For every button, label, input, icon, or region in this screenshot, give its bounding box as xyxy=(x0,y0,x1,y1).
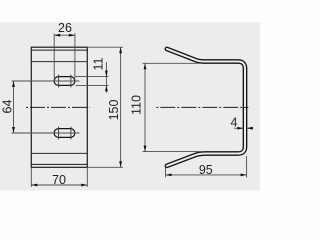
dim 11: extension lines xyxy=(76,76,109,78)
dim 70: dimension line xyxy=(31,184,87,186)
dim 95: extension lines xyxy=(165,168,167,178)
svg-text:11: 11 xyxy=(92,57,106,70)
drawing canvas background xyxy=(0,0,260,214)
right view centerline (dash-dot) xyxy=(156,106,248,108)
dim 70: extension lines xyxy=(30,167,32,187)
svg-text:4: 4 xyxy=(231,116,238,130)
dim 150: dimension line xyxy=(120,47,122,167)
top inner edge line xyxy=(31,49,87,51)
dim 110: extension lines xyxy=(143,62,201,64)
dim 11 arrows (outside) xyxy=(105,71,108,77)
dim 26: extension lines xyxy=(53,33,55,78)
svg-text:95: 95 xyxy=(199,163,213,177)
dim 95: dimension line xyxy=(166,174,247,176)
dim 11: dimension line xyxy=(105,62,107,93)
dim 26 arrows xyxy=(54,34,60,37)
slot upper center ticks xyxy=(58,75,60,88)
svg-text:64: 64 xyxy=(0,100,14,114)
svg-text:70: 70 xyxy=(52,173,66,187)
bottom inner edge line xyxy=(31,163,87,165)
dim 64: dimension line xyxy=(13,81,15,133)
dim 64 arrows xyxy=(12,81,15,87)
slot upper centerline (extends left = 64 ext) xyxy=(12,80,80,82)
dim 4 arrows (outside, pointing inward) xyxy=(237,127,243,130)
dim 110: dimension line xyxy=(144,63,146,151)
dim 150 arrows xyxy=(119,47,122,53)
dim 4: leader lines xyxy=(234,127,243,129)
dim 110 arrows xyxy=(144,63,147,69)
dim 70 arrows xyxy=(31,184,37,187)
plate outline xyxy=(31,47,87,167)
top bend line xyxy=(31,61,87,63)
slot lower xyxy=(54,129,75,138)
slot lower center ticks xyxy=(58,127,60,140)
slot lower centerline (extends left = 64 ext) xyxy=(12,132,80,134)
dim 26: dimension line xyxy=(54,34,75,36)
bottom bend line xyxy=(31,152,87,154)
profile: thick black stroke overdrawn with bg to create double line xyxy=(167,49,245,166)
svg-text:110: 110 xyxy=(130,95,144,115)
horizontal centerline (dash-dot) xyxy=(26,106,90,108)
svg-text:26: 26 xyxy=(58,21,72,35)
dim 95 arrows xyxy=(166,174,172,177)
slot upper xyxy=(54,77,75,86)
svg-text:150: 150 xyxy=(107,100,121,121)
dim 150: extension lines xyxy=(87,46,123,48)
